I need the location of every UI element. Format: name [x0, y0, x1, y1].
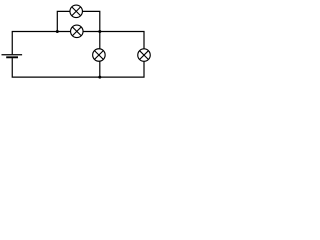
lamp L2 (main rail) [71, 25, 84, 37]
battery B1 long thin plate [2, 54, 23, 56]
battery B1 short thick plate [6, 56, 18, 58]
wire upper parallel branch loop y=11.35 [57, 11, 100, 31]
junction node top middle (99.8,31.5) [98, 30, 101, 33]
wire middle vertical branch x=99.8 [99, 32, 101, 78]
wire main loop: battery top riser, top rail y=31.5, right drop x=144, bottom rail y=77.1, battery bottom riser x=12.25 [12, 32, 144, 78]
junction node left (57.3,31.5) [56, 30, 59, 33]
lamp L3 (middle vertical branch) [93, 49, 106, 62]
lamp L1 (top branch) [70, 5, 83, 17]
junction node bottom middle (99.8,77.1) [98, 76, 101, 79]
lamp L4 (right branch) [138, 49, 151, 62]
